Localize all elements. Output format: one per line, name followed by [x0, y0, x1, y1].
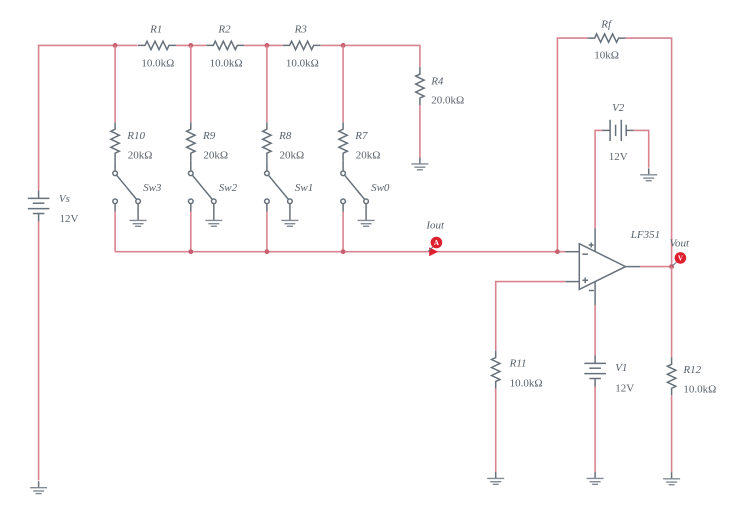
svg-text:Vs: Vs — [59, 193, 70, 205]
wire R8 to switch Sw1 pivot — [266, 160, 268, 171]
svg-text:Sw2: Sw2 — [219, 182, 238, 194]
wire R11 to ground — [495, 389, 497, 472]
resistor R8 — [263, 122, 271, 160]
wire V2 to ground corner — [634, 130, 649, 167]
resistor R11 — [492, 351, 500, 389]
ground (Sw0) — [358, 214, 375, 226]
op-amp non-inverting input pin — [565, 281, 579, 283]
ground (V2) — [640, 168, 657, 180]
svg-text:Vout: Vout — [670, 237, 691, 249]
resistor R12 — [667, 357, 675, 395]
current probe Iout pointer — [428, 246, 433, 251]
svg-text:V2: V2 — [612, 102, 625, 114]
junction dot bottom bus at Sw0 — [341, 249, 346, 254]
resistor R4 — [416, 67, 424, 105]
battery Vs — [28, 190, 50, 221]
ground (R11) — [487, 472, 504, 484]
op-amp negative supply pin — [594, 282, 596, 305]
wire top bus to R10 — [114, 45, 116, 122]
svg-text:R2: R2 — [217, 23, 231, 35]
wire Vs negative terminal down — [38, 221, 40, 480]
svg-text:R8: R8 — [278, 130, 292, 142]
ground (R12) — [663, 472, 680, 484]
wire top bus to R9 — [190, 45, 192, 122]
wire Sw0 left contact to bottom bus — [342, 204, 344, 212]
svg-text:20kΩ: 20kΩ — [356, 149, 381, 161]
svg-text:A: A — [434, 239, 439, 247]
resistor R2 — [206, 41, 244, 49]
wire op-amp output to output node — [640, 266, 672, 268]
ground (R4) — [411, 157, 428, 169]
wire Sw3 left contact to bottom bus — [114, 204, 116, 212]
resistor R7 — [339, 122, 347, 160]
wire Sw3 right contact to ground — [137, 204, 139, 215]
wire Vs positive terminal to top bus — [39, 45, 138, 190]
wire R12 to ground — [671, 395, 673, 472]
svg-text:Rf: Rf — [600, 18, 613, 30]
junction dot output node — [669, 264, 674, 269]
op-amp non-inverting plus marker — [582, 278, 588, 284]
switch Sw1 (SPDT) — [265, 171, 293, 204]
op-amp output pin — [626, 266, 641, 268]
svg-text:10kΩ: 10kΩ — [594, 50, 619, 62]
junction dot inverting input node — [555, 249, 560, 254]
svg-text:10.0kΩ: 10.0kΩ — [141, 57, 174, 69]
op-amp supply minus marker — [589, 290, 594, 292]
svg-text:V: V — [678, 255, 683, 263]
svg-text:R9: R9 — [202, 130, 216, 142]
svg-text:12V: 12V — [609, 151, 628, 163]
svg-text:Sw0: Sw0 — [371, 182, 390, 194]
voltage probe Vout circle — [675, 252, 687, 264]
wire op-amp V- to V1 — [594, 305, 596, 355]
wire Sw1 right contact to ground — [289, 204, 291, 215]
svg-text:20.0kΩ: 20.0kΩ — [431, 95, 464, 107]
switch Sw3 (SPDT) — [113, 171, 141, 204]
wire output node to R12 — [671, 267, 673, 358]
ground (Vs) — [30, 481, 47, 493]
ground (Sw2) — [205, 214, 222, 226]
resistor R1 — [138, 41, 176, 49]
current probe Iout circle — [431, 237, 443, 249]
wire V1 to ground — [594, 387, 596, 472]
op-amp U1 LF351 triangle — [579, 244, 625, 290]
resistor R9 — [187, 122, 195, 160]
junction dot top bus at R10 — [113, 43, 118, 48]
svg-text:12V: 12V — [615, 382, 634, 394]
wire R7 to switch Sw0 pivot — [342, 160, 344, 171]
resistor R10 — [111, 122, 119, 160]
svg-text:R1: R1 — [149, 23, 162, 35]
battery V1 — [584, 355, 606, 386]
ground (V1) — [587, 472, 604, 484]
svg-text:R4: R4 — [430, 75, 444, 87]
svg-text:10.0kΩ: 10.0kΩ — [210, 57, 243, 69]
wire Sw0 right contact to ground — [365, 204, 367, 215]
svg-text:Sw3: Sw3 — [143, 182, 162, 194]
current probe Iout arrow — [429, 247, 438, 256]
junction dot top bus at R7 — [341, 43, 346, 48]
ground (Sw1) — [281, 214, 298, 226]
wire Rf to output node — [626, 38, 672, 267]
wire R9 to switch Sw2 pivot — [190, 160, 192, 171]
wire Sw1 left contact to bottom bus — [266, 204, 268, 212]
svg-text:10.0kΩ: 10.0kΩ — [286, 57, 319, 69]
wire R1 to R2 — [176, 44, 206, 46]
voltage probe Vout pointer — [672, 262, 676, 266]
wire R4 to ground — [419, 105, 421, 157]
wire R10 to switch Sw3 pivot — [114, 160, 116, 171]
op-amp inverting input minus marker — [582, 253, 588, 255]
wire R2 to R3 — [245, 44, 283, 46]
wire op-amp + input to R11 — [496, 282, 566, 351]
wire top bus to R7 — [342, 45, 344, 122]
wire op-amp V+ to V2 — [595, 130, 602, 228]
svg-text:10.0kΩ: 10.0kΩ — [510, 377, 543, 389]
svg-text:R10: R10 — [126, 130, 145, 142]
switch Sw0 (SPDT) — [341, 171, 369, 204]
wire Sw2 left contact to bottom bus — [190, 204, 192, 212]
svg-text:R12: R12 — [682, 364, 701, 376]
switch Sw2 (SPDT) — [189, 171, 217, 204]
wire bottom bus (Iout net) — [115, 251, 565, 253]
ground (Sw3) — [130, 214, 147, 226]
svg-text:20kΩ: 20kΩ — [280, 149, 305, 161]
svg-text:R7: R7 — [354, 130, 368, 142]
wire top bus to R8 — [266, 45, 268, 122]
junction dot top bus at R9 — [188, 43, 193, 48]
svg-text:10.0kΩ: 10.0kΩ — [683, 384, 716, 396]
wire inverting node up to Rf — [557, 38, 587, 252]
svg-text:Iout: Iout — [425, 219, 445, 231]
junction dot top bus at R8 — [265, 43, 270, 48]
svg-text:R3: R3 — [294, 23, 308, 35]
wire Sw2 right contact to ground — [213, 204, 215, 215]
svg-text:R11: R11 — [509, 358, 527, 370]
junction dot bottom bus at Sw1 — [265, 249, 270, 254]
svg-text:20kΩ: 20kΩ — [128, 149, 153, 161]
svg-text:V1: V1 — [615, 362, 627, 374]
svg-text:LF351: LF351 — [630, 229, 660, 241]
resistor R3 — [283, 41, 321, 49]
svg-text:Sw1: Sw1 — [295, 182, 313, 194]
battery V2 — [602, 120, 634, 141]
op-amp inverting input pin — [565, 251, 579, 253]
op-amp supply plus marker — [589, 243, 594, 248]
svg-text:20kΩ: 20kΩ — [203, 149, 228, 161]
resistor Rf — [588, 34, 626, 42]
op-amp positive supply pin — [594, 228, 596, 251]
junction dot bottom bus at Sw2 — [188, 249, 193, 254]
wire R3 to R4 branch — [321, 45, 420, 67]
svg-text:12V: 12V — [60, 213, 79, 225]
